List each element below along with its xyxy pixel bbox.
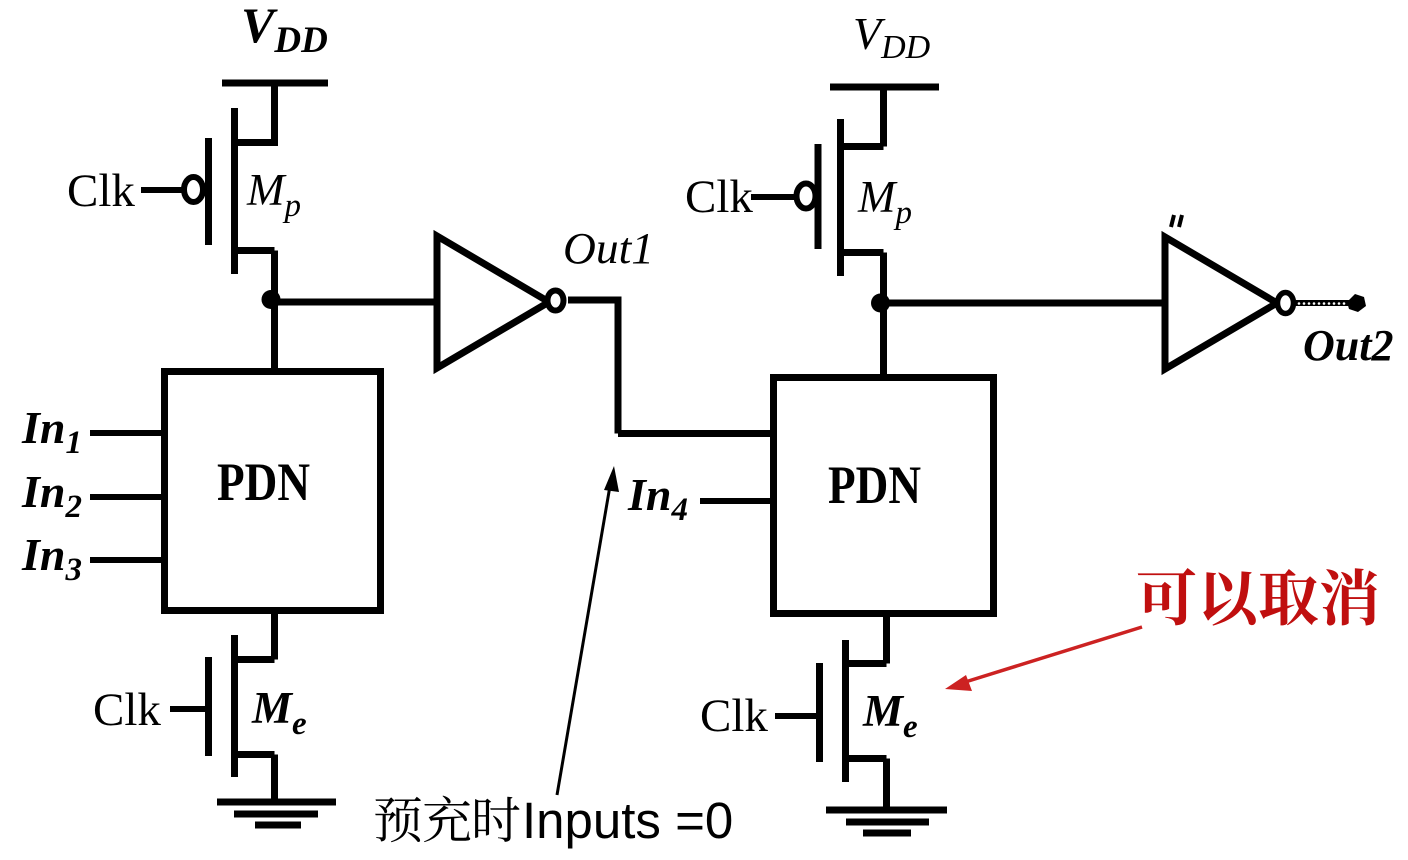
- wire node X1 to inverter input: [274, 299, 437, 306]
- transistor Q Mp (left) channel: [231, 108, 238, 274]
- wire Out1 vertical drop: [615, 300, 622, 434]
- svg-text:Out2: Out2: [1303, 321, 1393, 370]
- ground (left): [217, 799, 336, 806]
- transistor Q Mp (right) source contact: [837, 143, 884, 150]
- transistor Q Me (right) source contact: [842, 755, 887, 762]
- wire Clk to Mp gate (right): [751, 194, 796, 200]
- svg-text:Inputs =0: Inputs =0: [522, 792, 733, 849]
- tick mark above inverter U2: [1171, 215, 1182, 227]
- inverter U2 triangle: [1165, 237, 1277, 369]
- power rail VDD (right) bar: [830, 84, 939, 91]
- transistor Q Me (left) gate bar: [205, 657, 212, 756]
- transistor Q Mp (left) source contact: [231, 139, 275, 146]
- inverter U2 output bubble: [1278, 293, 1294, 314]
- svg-text:Out1: Out1: [563, 224, 654, 273]
- wire VDD to Mp source (left): [271, 83, 278, 146]
- transistor Q Mp (left) gate bar: [205, 138, 212, 245]
- svg-text:Clk: Clk: [67, 165, 135, 217]
- wire input In3: [90, 557, 164, 563]
- annotation red arrow to Me (right): [962, 627, 1142, 683]
- transistor Q Me (right) channel: [842, 640, 849, 782]
- node X1 junction dot: [262, 290, 281, 309]
- transistor Q Me (right) drain contact: [842, 660, 887, 667]
- transistor Q Me (left) source contact: [231, 751, 275, 758]
- inverter U1 output bubble: [548, 291, 564, 311]
- wire PDN bottom to Me drain (left): [271, 610, 278, 660]
- wire PDN2 bottom to Me drain (right): [883, 613, 890, 664]
- wire input In4: [700, 498, 773, 504]
- svg-text:PDN: PDN: [217, 452, 310, 512]
- wire Clk to Me gate (left): [170, 706, 205, 712]
- wire Mp drain to node X2: [880, 253, 887, 304]
- svg-text:Clk: Clk: [685, 171, 753, 223]
- transistor Q Mp (left) drain contact: [231, 247, 275, 254]
- transistor Q Me (right) gate bar: [816, 663, 823, 762]
- transistor Q Mp (right) channel: [837, 119, 844, 276]
- inverter U1 triangle: [437, 236, 549, 368]
- transistor Q Me (left) channel: [231, 635, 238, 777]
- svg-text:PDN: PDN: [828, 455, 921, 515]
- annotation arrow (thin, to Out1 wire): [557, 480, 611, 795]
- wire Out1 horizontal into PDN2: [618, 430, 773, 437]
- wire node X2 down to PDN2 top: [880, 303, 887, 377]
- svg-text:Clk: Clk: [700, 690, 768, 742]
- transistor Q Mp (right) drain contact: [837, 249, 884, 256]
- wire Out1 to second stage: horizontal from bubble: [568, 297, 622, 304]
- ground (right): [826, 807, 947, 814]
- wire Clk to Mp gate (left): [141, 187, 184, 193]
- node X2 junction dot: [871, 294, 890, 313]
- annotation red text: 可以取消: [1138, 568, 1196, 625]
- annotation text: 预充时 Inputs =0: [375, 797, 421, 843]
- wire Clk to Me gate (right): [775, 713, 816, 719]
- transistor Q Me (left) drain contact: [231, 656, 275, 663]
- wire Me source to ground (right): [883, 759, 890, 811]
- power rail VDD (left) bar: [222, 80, 328, 87]
- wire node X1 down to PDN top: [271, 299, 278, 371]
- svg-text:Clk: Clk: [93, 684, 161, 736]
- wire Mp drain to node X1: [271, 251, 278, 300]
- terminal blob Out2: [1347, 294, 1366, 312]
- wire Me source to ground (left): [271, 755, 278, 803]
- block PDN (right) box: [774, 378, 994, 614]
- wire input In1: [90, 430, 164, 436]
- wire node X2 to inverter U2 input: [884, 300, 1166, 307]
- block PDN (left) box: [165, 372, 381, 611]
- transistor Q Mp (left) gate bubble: [184, 177, 203, 202]
- transistor Q Mp (right) gate bubble: [797, 184, 816, 209]
- wire inverter U2 output (stippled): [1295, 300, 1352, 306]
- wire input In2: [90, 494, 164, 500]
- wire VDD to Mp source (right): [880, 87, 887, 147]
- transistor Q Mp (right) gate bar: [815, 144, 822, 249]
